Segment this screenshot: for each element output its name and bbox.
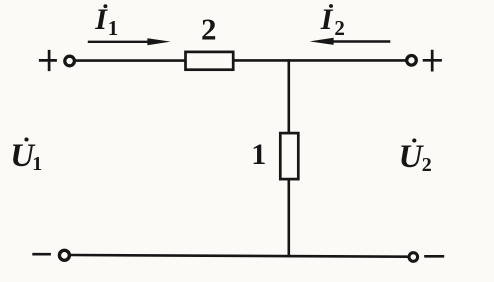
wire top-left segment (port1+ to R1): [76, 59, 187, 62]
wire vertical upper (node to R2): [287, 59, 290, 133]
label U2: [399, 139, 432, 177]
current arrow I2: [310, 38, 391, 45]
terminal port2 +: [407, 56, 417, 66]
label I2: [320, 3, 345, 40]
label U1: [10, 138, 42, 175]
label I1: [94, 3, 118, 40]
svg-text:U: U: [399, 139, 425, 175]
terminal port1 +: [65, 56, 75, 66]
svg-text:1: 1: [108, 16, 119, 40]
plus sign port2: [423, 50, 442, 72]
wire vertical lower (R2 to bottom node): [287, 179, 290, 257]
resistor R1 value 2 (series): [186, 52, 234, 70]
svg-text:1: 1: [32, 153, 42, 175]
svg-text:2: 2: [334, 16, 345, 40]
resistor R2 value 1 (shunt): [280, 133, 298, 179]
wire bottom segment (port1- to port2-): [71, 255, 408, 257]
terminal port1 -: [59, 250, 69, 260]
minus sign port1: [32, 253, 51, 256]
plus sign port1: [39, 50, 57, 71]
svg-text:2: 2: [201, 12, 217, 47]
svg-text:1: 1: [251, 138, 266, 171]
terminal port2 -: [409, 253, 418, 262]
svg-text:2: 2: [422, 154, 432, 176]
wire top-right segment (R1 to port2+): [233, 59, 406, 62]
svg-text:I: I: [320, 3, 334, 36]
minus sign port2: [424, 255, 444, 258]
current arrow I1: [88, 38, 171, 45]
